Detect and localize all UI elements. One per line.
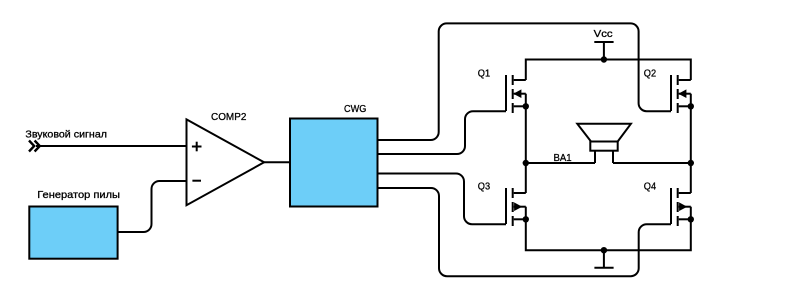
op-amp + input symbol bbox=[192, 142, 202, 152]
svg-text:Q1: Q1 bbox=[478, 68, 490, 80]
label Q1 bbox=[478, 68, 490, 80]
generator G1 box (sawtooth generator) bbox=[29, 207, 117, 259]
wire mid-left to speaker bbox=[526, 162, 595, 164]
svg-text:BA1: BA1 bbox=[554, 152, 572, 164]
wire CWG out3 to Q3 gate bbox=[378, 174, 506, 225]
label Vcc bbox=[594, 28, 613, 40]
junction dot ground node bbox=[601, 247, 607, 253]
CWG block bbox=[290, 119, 378, 207]
label Q4 bbox=[644, 181, 656, 193]
svg-text:Q3: Q3 bbox=[478, 181, 490, 193]
label COMP2 bbox=[211, 111, 247, 123]
wire speaker to mid-right bbox=[613, 162, 691, 164]
wire audio signal to comparator + input bbox=[36, 145, 186, 147]
svg-text:Q2: Q2 bbox=[644, 68, 656, 80]
speaker BA1 magnet body bbox=[590, 142, 617, 151]
speaker BA1 cone bbox=[577, 124, 631, 142]
transistor Q3 (MOSFET, bottom-left, arrow right) bbox=[506, 188, 526, 226]
svg-text:CWG: CWG bbox=[344, 103, 366, 115]
transistor Q1 (N-MOSFET, top-left) bbox=[506, 75, 526, 113]
wire left rail Q3 source to bottom rail bbox=[526, 219, 604, 250]
junction dot left mid node bbox=[523, 160, 529, 166]
svg-text:Звуковой сигнал: Звуковой сигнал bbox=[25, 128, 107, 140]
transistor Q2 (N-MOSFET, top-right) bbox=[671, 75, 691, 113]
wire right rail Q2 source to Q4 drain bbox=[690, 106, 692, 193]
label BA1 bbox=[554, 152, 572, 164]
speaker BA1 leads bbox=[595, 151, 613, 163]
op-amp COMP2 triangle bbox=[187, 119, 265, 205]
svg-text:COMP2: COMP2 bbox=[211, 111, 247, 123]
label Q3 bbox=[478, 181, 490, 193]
wire comparator output to CWG input bbox=[264, 161, 290, 163]
node IN label Звуковой сигнал bbox=[25, 128, 107, 140]
wire CWG out1 to Q2 gate (top loop) bbox=[378, 23, 671, 140]
wire left rail Q1 source to Q3 drain bbox=[525, 106, 527, 193]
transistor Q4 (MOSFET, bottom-right, arrow right) bbox=[671, 188, 691, 226]
junction dot Vcc/bus bbox=[601, 56, 607, 62]
input port chevron arrow bbox=[29, 141, 40, 152]
wire CWG out2 to Q1 gate bbox=[378, 111, 506, 154]
wire CWG out4 to Q4 gate (bottom loop) bbox=[378, 188, 671, 276]
svg-text:Q4: Q4 bbox=[644, 181, 656, 193]
label Q2 bbox=[644, 68, 656, 80]
ground symbol bbox=[594, 250, 613, 268]
power Vcc symbol bbox=[594, 42, 613, 60]
svg-text:Генератор пилы: Генератор пилы bbox=[37, 189, 120, 201]
svg-text:Vcc: Vcc bbox=[594, 28, 613, 40]
wire top bus Q1 drain to Q2 drain bbox=[526, 60, 691, 81]
wire generator to comparator - input bbox=[118, 181, 186, 232]
junction dot right mid node bbox=[688, 160, 694, 166]
op-amp - input symbol bbox=[192, 180, 201, 182]
wire bottom rail to Q4 source bbox=[604, 219, 691, 250]
generator G1 label Генератор пилы bbox=[37, 189, 120, 201]
label CWG bbox=[344, 103, 366, 115]
